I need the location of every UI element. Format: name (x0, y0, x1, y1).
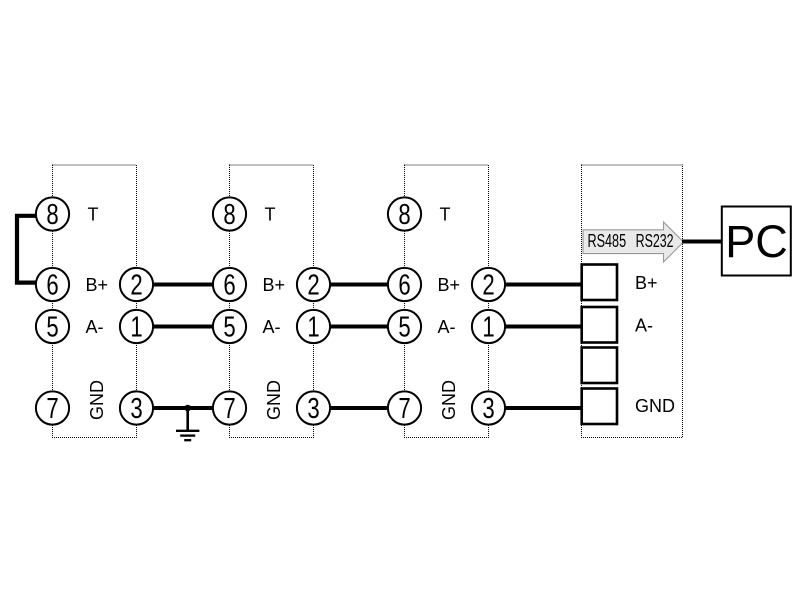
terminal pin 6 (module M1) (36, 268, 69, 301)
wire B+ module2 pin2 to module3 pin6 (314, 283, 405, 287)
svg-text:1: 1 (130, 312, 142, 343)
wire A- module2 pin1 to module3 pin5 (314, 325, 405, 329)
wire B+ module1 pin2 to module2 pin6 (137, 283, 230, 287)
svg-text:2: 2 (130, 270, 142, 301)
svg-text:B+: B+ (86, 275, 109, 295)
wire GND module1 pin3 to module2 pin7 (137, 406, 230, 410)
terminal pin 1 (module M3) (472, 310, 505, 343)
terminal pin 5 (module M1) (36, 310, 69, 343)
wire B+ module3 pin2 to converter B+ terminal (489, 283, 585, 287)
svg-text:6: 6 (223, 270, 235, 301)
svg-text:A-: A- (635, 315, 653, 335)
terminal pin 2 (module M2) (297, 268, 330, 301)
wire A- module3 pin1 to converter A- terminal (489, 325, 585, 329)
terminal pin 7 (module M1) (36, 391, 69, 424)
svg-text:8: 8 (223, 199, 235, 230)
svg-text:T: T (88, 204, 99, 224)
svg-text:GND: GND (87, 380, 107, 420)
svg-text:7: 7 (398, 393, 410, 424)
terminal pin 8 (module M1) (36, 197, 69, 230)
converter U4 outline (582, 165, 683, 438)
terminal pin 2 (module M1) (120, 268, 153, 301)
svg-text:GND: GND (439, 380, 459, 420)
svg-text:GND: GND (635, 396, 675, 416)
svg-text:RS232: RS232 (636, 230, 674, 251)
wire GND module2 pin3 to module3 pin7 (314, 406, 405, 410)
svg-text:5: 5 (223, 312, 235, 343)
terminal pin 3 (module M1) (120, 391, 153, 424)
svg-text:A-: A- (438, 317, 456, 337)
svg-text:8: 8 (46, 199, 58, 230)
converter terminal block A- (582, 307, 617, 343)
svg-text:5: 5 (398, 312, 410, 343)
svg-text:6: 6 (398, 270, 410, 301)
terminal pin 1 (module M2) (297, 310, 330, 343)
terminal pin 3 (module M3) (472, 391, 505, 424)
converter terminal block B+ (582, 265, 617, 301)
converter terminal block NC (582, 348, 617, 384)
terminal pin 7 (module M3) (388, 391, 421, 424)
svg-text:3: 3 (130, 393, 142, 424)
svg-text:B+: B+ (438, 275, 461, 295)
wire converter to PC (682, 240, 722, 244)
junction dot on GND wire (184, 405, 191, 412)
wire GND module3 pin3 to converter GND terminal (489, 406, 585, 410)
terminal pin 6 (module M3) (388, 268, 421, 301)
module M1 outline (53, 165, 137, 438)
svg-text:RS485: RS485 (588, 230, 627, 251)
RS485 to RS232 converter arrow (583, 222, 684, 262)
svg-text:7: 7 (46, 393, 58, 424)
PC box (722, 207, 791, 276)
terminal pin 2 (module M3) (472, 268, 505, 301)
wire termination jumper module1 pin8 to pin6 (17, 216, 38, 283)
svg-text:T: T (265, 204, 276, 224)
svg-text:3: 3 (482, 393, 494, 424)
terminal pin 1 (module M1) (120, 310, 153, 343)
module M2 outline (230, 165, 314, 438)
ground (176, 408, 199, 440)
terminal pin 5 (module M3) (388, 310, 421, 343)
module M3 outline (405, 165, 489, 438)
terminal pin 3 (module M2) (297, 391, 330, 424)
svg-text:GND: GND (264, 380, 284, 420)
svg-text:A-: A- (263, 317, 281, 337)
svg-text:A-: A- (86, 317, 104, 337)
svg-text:2: 2 (307, 270, 319, 301)
wire A- module1 pin1 to module2 pin5 (137, 325, 230, 329)
terminal pin 8 (module M2) (213, 197, 246, 230)
svg-text:3: 3 (307, 393, 319, 424)
converter terminal block GND (582, 389, 617, 425)
svg-text:5: 5 (46, 312, 58, 343)
svg-text:1: 1 (482, 312, 494, 343)
svg-text:1: 1 (307, 312, 319, 343)
svg-text:7: 7 (223, 393, 235, 424)
svg-text:8: 8 (398, 199, 410, 230)
terminal pin 5 (module M2) (213, 310, 246, 343)
svg-text:B+: B+ (263, 275, 286, 295)
terminal pin 7 (module M2) (213, 391, 246, 424)
svg-text:2: 2 (482, 270, 494, 301)
terminal pin 6 (module M2) (213, 268, 246, 301)
svg-text:PC: PC (725, 216, 788, 267)
svg-text:T: T (440, 204, 451, 224)
svg-text:6: 6 (46, 270, 58, 301)
svg-text:B+: B+ (635, 273, 658, 293)
terminal pin 8 (module M3) (388, 197, 421, 230)
